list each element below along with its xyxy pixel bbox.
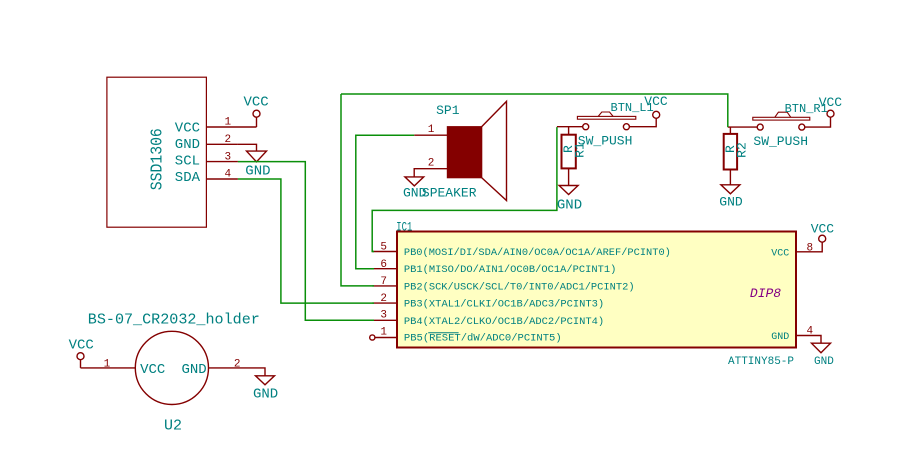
svg-text:PB5(RESET/dW/ADC0/PCINT5): PB5(RESET/dW/ADC0/PCINT5) xyxy=(404,333,562,345)
svg-text:8: 8 xyxy=(807,243,814,255)
svg-text:R1: R1 xyxy=(573,142,588,158)
svg-text:GND: GND xyxy=(245,163,270,179)
svg-text:IC1: IC1 xyxy=(396,220,412,235)
svg-text:SPEAKER: SPEAKER xyxy=(422,186,477,201)
svg-text:4: 4 xyxy=(225,168,232,180)
svg-text:2: 2 xyxy=(428,158,435,170)
svg-text:GND: GND xyxy=(719,195,743,210)
svg-text:1: 1 xyxy=(104,358,111,370)
svg-text:4: 4 xyxy=(807,325,814,337)
svg-text:2: 2 xyxy=(380,293,387,305)
svg-text:3: 3 xyxy=(225,152,232,164)
svg-text:SP1: SP1 xyxy=(436,103,460,118)
svg-text:1: 1 xyxy=(380,327,387,339)
svg-text:SCL: SCL xyxy=(175,154,200,170)
svg-text:VCC: VCC xyxy=(69,338,94,354)
svg-text:PB1(MISO/DO/AIN1/OC0B/OC1A/PCI: PB1(MISO/DO/AIN1/OC0B/OC1A/PCINT1) xyxy=(404,264,617,276)
svg-text:VCC: VCC xyxy=(140,362,165,378)
svg-text:PB0(MOSI/DI/SDA/AIN0/OC0A/OC1A: PB0(MOSI/DI/SDA/AIN0/OC0A/OC1A/AREF/PCIN… xyxy=(404,247,671,259)
svg-text:GND: GND xyxy=(771,332,789,343)
svg-text:PB4(XTAL2/CLKO/OC1B/ADC2/PCINT: PB4(XTAL2/CLKO/OC1B/ADC2/PCINT4) xyxy=(404,316,604,328)
svg-text:PB2(SCK/USCK/SCL/T0/INT0/ADC1/: PB2(SCK/USCK/SCL/T0/INT0/ADC1/PCINT2) xyxy=(404,281,635,293)
svg-text:SSD1306: SSD1306 xyxy=(149,128,168,190)
svg-text:GND: GND xyxy=(253,387,278,403)
svg-text:SDA: SDA xyxy=(175,170,201,186)
svg-text:VCC: VCC xyxy=(244,95,269,111)
svg-text:VCC: VCC xyxy=(811,222,835,237)
svg-text:2: 2 xyxy=(234,358,241,370)
svg-text:PB3(XTAL1/CLKI/OC1B/ADC3/PCINT: PB3(XTAL1/CLKI/OC1B/ADC3/PCINT3) xyxy=(404,299,604,311)
svg-text:1: 1 xyxy=(225,116,232,128)
svg-text:2: 2 xyxy=(225,134,232,146)
svg-text:VCC: VCC xyxy=(819,95,843,110)
svg-text:U2: U2 xyxy=(164,418,182,435)
svg-text:SW_PUSH: SW_PUSH xyxy=(753,134,808,149)
svg-text:6: 6 xyxy=(380,259,387,271)
svg-text:ATTINY85-P: ATTINY85-P xyxy=(728,356,794,368)
svg-text:5: 5 xyxy=(380,242,387,254)
svg-text:DIP8: DIP8 xyxy=(750,286,781,301)
svg-text:R2: R2 xyxy=(735,142,750,158)
svg-text:3: 3 xyxy=(380,310,387,322)
svg-text:VCC: VCC xyxy=(175,120,200,136)
svg-text:GND: GND xyxy=(182,362,207,378)
svg-text:VCC: VCC xyxy=(771,248,789,259)
svg-text:7: 7 xyxy=(380,276,387,288)
svg-text:GND: GND xyxy=(175,137,200,153)
svg-text:1: 1 xyxy=(428,124,435,136)
svg-text:VCC: VCC xyxy=(644,94,668,109)
svg-text:GND: GND xyxy=(814,356,834,368)
svg-text:BS-07_CR2032_holder: BS-07_CR2032_holder xyxy=(88,312,260,329)
svg-text:GND: GND xyxy=(557,197,582,213)
